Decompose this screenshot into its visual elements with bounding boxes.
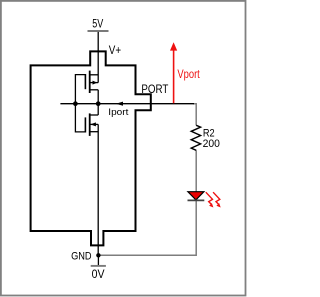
wire Q1 source to node (97, 90, 99, 115)
svg-text:GND: GND (71, 250, 92, 262)
LED light arrow 2 (213, 192, 220, 204)
resistor R2 (191, 125, 200, 150)
wire 5V to transistor Q1 drain/arrow (97, 32, 99, 83)
svg-text:5V: 5V (92, 17, 104, 31)
node drain junction (96, 101, 101, 106)
node Vout wire loop (gray) (99, 104, 196, 256)
wire gate bus with links (75, 75, 85, 132)
node gate junction (73, 101, 78, 106)
svg-text:Vport: Vport (177, 67, 200, 81)
svg-text:V+: V+ (109, 43, 121, 57)
wire GND down (97, 255, 99, 265)
transistor Q2 (lower NMOS) (85, 113, 98, 135)
svg-text:200: 200 (203, 138, 220, 150)
wire gate stub and mid link (60, 103, 98, 105)
svg-text:Iport: Iport (108, 107, 128, 118)
arrow Iport (current direction) (116, 102, 123, 106)
node GND junction (96, 253, 100, 257)
LED D1 (188, 192, 204, 200)
ground 0V bar (91, 265, 106, 267)
wire PORT (node to edge) (98, 103, 194, 105)
wire Q2 source to GND (97, 124, 99, 255)
LED light arrow 1 (206, 192, 213, 204)
transistor Q1 (upper PMOS) (85, 71, 98, 93)
svg-text:0V: 0V (92, 267, 105, 281)
IC box outline with tabs (31, 51, 151, 245)
svg-text:PORT: PORT (141, 82, 168, 96)
power 5V bar (88, 30, 109, 32)
LED cathode bar (188, 199, 205, 201)
arrow Vport (red) (173, 50, 175, 103)
border frame (1, 1, 246, 296)
